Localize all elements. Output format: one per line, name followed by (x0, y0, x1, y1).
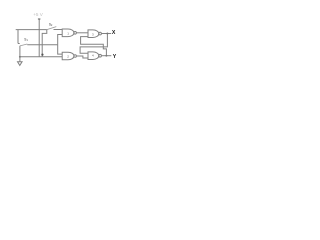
nand gate G3 bubble (99, 32, 102, 35)
wire Y feedback to G3 lower input (81, 37, 107, 56)
wire contact rail vertical (17, 30, 19, 44)
nand gate G1 bubble (74, 32, 77, 35)
junction dot detour wire (41, 54, 43, 56)
nand gate G2 bubble (74, 55, 77, 58)
svg-text:X: X (112, 30, 116, 36)
svg-text:Y: Y (113, 54, 117, 60)
+5V supply bar (38, 18, 41, 20)
wire X feedback to G4 upper input (80, 34, 107, 54)
nand gate G2 body (62, 52, 74, 60)
wire X output (101, 33, 111, 35)
junction dot ground rail (19, 56, 21, 58)
wire S1 throw to mid routing (27, 44, 57, 46)
wire branch down to G2 upper input (58, 45, 63, 54)
junction dot Y node (105, 55, 107, 57)
nand gate G1 body (62, 29, 74, 37)
switch S1 lever (20, 44, 27, 46)
wire contact tick (18, 43, 20, 45)
wire Y output (101, 55, 111, 57)
ground symbol triangle (18, 62, 23, 66)
wire S2 to G1 input (54, 29, 63, 31)
wire G2 out jog to G4 lower input (76, 56, 88, 58)
nand gate G4 bubble (99, 54, 102, 57)
wire +5V drop (38, 20, 40, 57)
junction dot X node (106, 33, 108, 35)
nand gate G4 body (88, 52, 99, 60)
switch S2 lever (47, 27, 57, 30)
wire G1 out to G3 in (76, 32, 88, 34)
nand gate G3 body (88, 30, 99, 38)
wire bottom rail (20, 56, 62, 58)
wire top rail (16, 29, 47, 31)
wire ground rail vertical (19, 46, 21, 62)
wire detour S2 node down to bottom rail (42, 30, 47, 57)
svg-text:+5 V: +5 V (33, 12, 44, 17)
wire branch up to G1 lower input (58, 35, 63, 45)
